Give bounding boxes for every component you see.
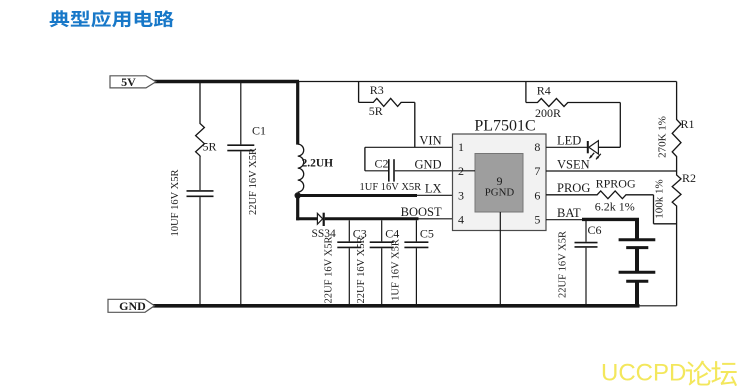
svg-text:8: 8: [534, 140, 540, 154]
svg-text:6.2k 1%: 6.2k 1%: [595, 200, 635, 214]
svg-text:C5: C5: [420, 226, 434, 240]
svg-text:C1: C1: [252, 123, 266, 137]
svg-text:RPROG: RPROG: [596, 177, 636, 191]
svg-text:7: 7: [534, 164, 540, 178]
svg-text:200R: 200R: [535, 106, 561, 120]
svg-text:PGND: PGND: [485, 187, 515, 199]
svg-text:3: 3: [458, 188, 464, 202]
svg-text:1UF 16V X5R: 1UF 16V X5R: [360, 182, 422, 193]
svg-text:1: 1: [458, 140, 464, 154]
svg-text:5: 5: [534, 213, 540, 227]
svg-text:22UF 16V X5R: 22UF 16V X5R: [356, 237, 367, 304]
svg-text:5R: 5R: [369, 104, 383, 118]
svg-text:C2: C2: [375, 156, 389, 170]
svg-text:PROG: PROG: [557, 181, 590, 195]
svg-text:2: 2: [458, 164, 464, 178]
svg-text:22UF 16V X5R: 22UF 16V X5R: [248, 148, 259, 215]
svg-text:GND: GND: [415, 157, 442, 171]
svg-text:R3: R3: [370, 83, 384, 97]
svg-text:R2: R2: [682, 171, 696, 185]
svg-text:UCCPD: UCCPD: [601, 360, 686, 387]
svg-text:VSEN: VSEN: [557, 157, 590, 171]
svg-text:2.2UH: 2.2UH: [302, 158, 334, 170]
svg-text:GND: GND: [119, 299, 146, 313]
svg-text:C4: C4: [385, 226, 399, 240]
svg-text:6: 6: [534, 188, 540, 202]
svg-text:BAT: BAT: [557, 206, 581, 220]
svg-text:100k 1%: 100k 1%: [653, 179, 665, 218]
svg-text:VIN: VIN: [419, 134, 441, 148]
svg-text:22UF 16V X5R: 22UF 16V X5R: [558, 231, 569, 298]
svg-text:1UF 16V X5R: 1UF 16V X5R: [391, 239, 402, 301]
svg-text:C6: C6: [588, 223, 602, 237]
svg-text:10UF 16V X5R: 10UF 16V X5R: [170, 170, 181, 237]
svg-text:5V: 5V: [121, 75, 136, 89]
svg-text:5R: 5R: [203, 139, 217, 153]
svg-text:22UF 16V X5R: 22UF 16V X5R: [324, 237, 335, 304]
svg-text:R1: R1: [681, 117, 695, 131]
svg-text:LX: LX: [425, 181, 442, 195]
svg-text:LED: LED: [557, 134, 581, 148]
svg-text:BOOST: BOOST: [401, 205, 442, 219]
svg-text:PL7501C: PL7501C: [474, 118, 535, 135]
svg-text:270K 1%: 270K 1%: [657, 116, 669, 158]
svg-text:R4: R4: [537, 83, 551, 97]
svg-text:4: 4: [458, 213, 464, 227]
